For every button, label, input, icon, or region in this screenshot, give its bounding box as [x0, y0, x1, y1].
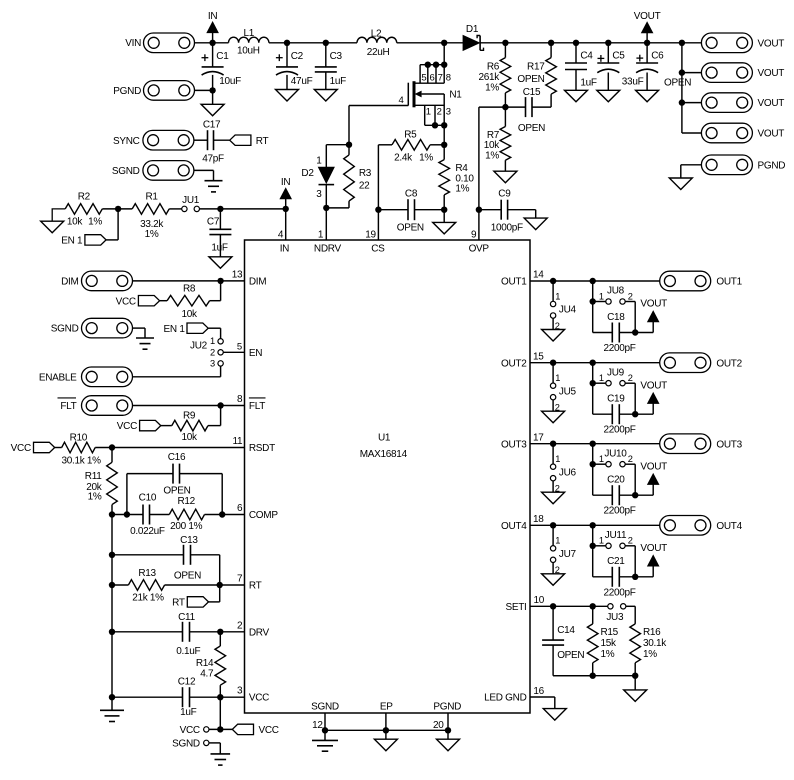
svg-text:C7: C7	[207, 216, 220, 227]
resistor R4 0.10 1%	[439, 160, 475, 210]
svg-text:R16: R16	[643, 627, 661, 638]
connector OUT1	[660, 271, 743, 291]
svg-text:OUT4: OUT4	[501, 521, 527, 532]
ground - C5	[597, 90, 620, 102]
wire - OUT2 net	[530, 362, 660, 364]
junction - C18 right node	[632, 329, 638, 335]
svg-text:VOUT: VOUT	[758, 68, 785, 79]
junction - C19 right node	[632, 411, 638, 417]
wire - OVP branch (node to OVP pin 9)	[479, 107, 506, 240]
resistor R2 10k 1%	[65, 192, 102, 228]
svg-text:8: 8	[237, 394, 243, 405]
ground - SGND pin (bar style)	[312, 730, 338, 751]
resistor R14 4.7	[196, 632, 226, 697]
ground - C6	[636, 90, 659, 102]
wire - R5 left to CS pin 19	[377, 145, 379, 240]
svg-text:1uF: 1uF	[330, 76, 347, 87]
svg-text:15k: 15k	[601, 638, 618, 649]
ground - R2	[41, 209, 65, 233]
junction - C16 left	[124, 511, 130, 517]
connector DIM	[61, 271, 132, 291]
svg-text:EN: EN	[249, 348, 262, 359]
ground - R15/R16	[624, 690, 647, 702]
svg-text:12: 12	[312, 720, 323, 731]
capacitor C6 OPEN	[636, 43, 691, 91]
jumper JU8 (bypass select)	[593, 286, 636, 333]
svg-text:1%: 1%	[145, 229, 159, 240]
wire - bus to ground	[634, 676, 636, 690]
svg-text:R4: R4	[455, 163, 468, 174]
svg-text:C13: C13	[180, 535, 198, 546]
svg-text:C15: C15	[523, 87, 541, 98]
pin labels - top (4 IN, 1 NDRV, 19 CS, 9 OVP)	[278, 229, 490, 254]
wire - DIM net	[132, 280, 244, 282]
capacitor C15 OPEN	[505, 87, 551, 134]
svg-text:ENABLE: ENABLE	[39, 372, 77, 383]
svg-text:1uF: 1uF	[211, 242, 228, 253]
svg-text:DIM: DIM	[249, 276, 266, 287]
svg-text:10k: 10k	[181, 432, 198, 443]
pin 15 OUT2 label	[501, 351, 544, 369]
connector SYNC	[113, 130, 194, 150]
junction - N1 drain at rail	[441, 40, 447, 46]
svg-text:8: 8	[446, 72, 451, 83]
capacitor C21 2200pF	[593, 556, 636, 598]
resistor R16 30.1k 1%	[626, 606, 667, 675]
junction - OUT2/C19	[590, 360, 596, 366]
junction - C2	[284, 40, 290, 46]
junction - VIN node	[209, 40, 215, 46]
junction - OUT1/JU4	[550, 278, 556, 284]
connector OUT2	[660, 353, 743, 373]
ground - PGND pin	[437, 730, 460, 750]
pin 3 VCC label	[237, 686, 269, 704]
ground - R4/C8	[433, 222, 456, 234]
svg-text:2200pF: 2200pF	[603, 343, 635, 354]
svg-text:C16: C16	[168, 452, 186, 463]
diode D2 (pins 1,3)	[301, 155, 334, 208]
capacitor C12 1uF	[112, 677, 245, 719]
svg-text:1: 1	[555, 536, 560, 546]
wire - R15/R16 ground bus	[553, 675, 635, 677]
svg-text:VCC: VCC	[11, 443, 31, 454]
ground - C1	[201, 104, 224, 116]
svg-text:R12: R12	[177, 496, 195, 507]
svg-text:VOUT: VOUT	[640, 380, 667, 391]
pin 17 OUT3 label	[501, 432, 544, 450]
capacitor C19 2200pF	[593, 394, 636, 436]
tag RT (sync input)	[230, 135, 269, 147]
svg-text:6: 6	[237, 503, 243, 514]
svg-text:7: 7	[438, 72, 443, 83]
tag VCC (R10)	[11, 442, 55, 454]
pin 6 COMP label	[237, 503, 278, 521]
ground - left rail (bar style)	[100, 697, 124, 721]
wire - OUT1 net	[530, 280, 660, 282]
svg-text:C12: C12	[178, 677, 196, 688]
pin 7 RT label	[237, 574, 262, 592]
junction - JU8 pin1 node	[590, 298, 596, 304]
svg-text:1: 1	[555, 291, 560, 301]
junction - DRV/R14	[217, 629, 223, 635]
svg-text:22uH: 22uH	[367, 47, 390, 58]
svg-text:OPEN: OPEN	[174, 570, 201, 581]
svg-text:1%: 1%	[455, 183, 469, 194]
connector VOUT (2)	[701, 63, 784, 83]
svg-text:3: 3	[316, 189, 322, 200]
wire - pin 4 IN	[285, 209, 287, 240]
ground - R7	[494, 171, 517, 183]
junction - RT node	[217, 582, 223, 588]
svg-text:OUT2: OUT2	[716, 358, 742, 369]
svg-text:1: 1	[318, 229, 324, 240]
svg-text:VOUT: VOUT	[758, 98, 785, 109]
connector SGND (upper)	[112, 161, 194, 181]
pin labels - bottom (12 SGND, EP, 20 PGND)	[311, 702, 461, 731]
junction - JU11 pin1 node	[590, 543, 596, 549]
resistor R9 10k	[161, 406, 221, 444]
svg-text:JU5: JU5	[559, 386, 577, 397]
junction - OUT3/C20	[590, 441, 596, 447]
resistor R11 20k 1%	[85, 448, 118, 505]
tag VCC (R9)	[117, 420, 161, 432]
svg-text:IN: IN	[281, 177, 290, 188]
svg-text:OPEN: OPEN	[163, 485, 190, 496]
capacitor C14 OPEN	[542, 606, 593, 675]
capacitor C10 0.022uF	[130, 493, 165, 537]
wire - OUT3 to JU10/C20	[592, 444, 594, 496]
capacitor C17 47pF	[194, 120, 230, 165]
jumper JU11 (bypass select)	[593, 530, 636, 577]
svg-text:1%: 1%	[419, 152, 433, 163]
wire - R4 bottom to ground	[443, 210, 445, 223]
svg-text:3: 3	[210, 359, 215, 369]
junction - SETI/C14	[550, 603, 556, 609]
junction - R17 top at rail	[548, 40, 554, 46]
ground - C4	[565, 90, 588, 102]
wire - JU2 pin2 to EN pin 5	[223, 351, 244, 353]
svg-text:LED GND: LED GND	[484, 693, 526, 704]
pin 10 SETI label	[505, 595, 544, 613]
svg-text:1uF: 1uF	[180, 707, 197, 718]
svg-text:1uF: 1uF	[580, 78, 597, 89]
svg-text:PGND: PGND	[433, 702, 461, 713]
svg-text:VOUT: VOUT	[640, 299, 667, 310]
junction - C3	[323, 40, 329, 46]
wire - VIN/IN input rail to L1	[195, 42, 229, 44]
jumper JU7 (to ground)	[550, 525, 576, 575]
wire - LED GND to ground	[530, 697, 555, 709]
svg-text:VOUT: VOUT	[640, 461, 667, 472]
capacitor C20 2200pF	[593, 475, 636, 517]
svg-text:OUT4: OUT4	[716, 521, 742, 532]
svg-text:R9: R9	[183, 411, 196, 422]
svg-text:D2: D2	[301, 168, 314, 179]
svg-text:2200pF: 2200pF	[603, 506, 635, 517]
resistor R1 33.2k 1%	[132, 192, 169, 240]
junction - R16 bottom	[632, 673, 638, 679]
ground - SGND lower (bar style)	[136, 338, 154, 349]
svg-text:RT: RT	[172, 598, 185, 609]
junction - C6	[644, 40, 650, 46]
wire - EP to bus	[385, 713, 387, 730]
wire - SETI net	[530, 605, 608, 607]
capacitor C3 1uF	[315, 43, 346, 90]
connector VOUT (4)	[701, 123, 784, 143]
connector OUT3	[660, 434, 743, 454]
node VOUT (arrow at C19)	[635, 380, 667, 414]
svg-text:C4: C4	[580, 51, 593, 62]
svg-text:5: 5	[421, 72, 426, 83]
svg-text:C18: C18	[607, 312, 625, 323]
ground - SGND (upper, bar style)	[205, 181, 223, 192]
junction - IN pin4 node	[283, 206, 289, 212]
svg-text:R15: R15	[601, 627, 619, 638]
wire - COMP row left	[112, 514, 143, 516]
junction - JU9 pin1 node	[590, 380, 596, 386]
svg-text:1%: 1%	[601, 649, 615, 660]
junction - VOUT stack rail	[679, 40, 685, 46]
junction - rail/C13	[109, 552, 115, 558]
junction - SETI/R15	[590, 603, 596, 609]
svg-text:47pF: 47pF	[202, 154, 224, 165]
svg-text:13: 13	[232, 269, 243, 280]
svg-text:17: 17	[533, 432, 544, 443]
svg-text:14: 14	[533, 270, 544, 281]
resistor R3 22	[344, 145, 372, 208]
ground - JU7	[542, 574, 565, 586]
svg-text:SGND: SGND	[112, 166, 140, 177]
jumper JU9 (bypass select)	[593, 367, 636, 414]
wire - N1 source to R4	[443, 125, 445, 159]
jumper JU5 (to ground)	[550, 363, 576, 413]
pin 13 DIM label	[232, 269, 267, 287]
svg-text:OPEN: OPEN	[518, 123, 545, 134]
svg-text:OVP: OVP	[469, 244, 490, 255]
resistor R6 261k 1%	[479, 43, 511, 107]
junction - CS/C8 node	[375, 207, 381, 213]
svg-text:JU10: JU10	[604, 448, 627, 459]
junction - C5	[605, 40, 611, 46]
svg-text:FLT: FLT	[249, 401, 265, 412]
node IN (up arrow at pin 4)	[280, 177, 291, 209]
junction - VCC/R14	[217, 694, 223, 700]
svg-text:JU1: JU1	[182, 195, 200, 206]
resistor R15 15k 1%	[587, 606, 618, 675]
pin 8 FLT label	[237, 394, 265, 412]
svg-text:OPEN: OPEN	[517, 74, 544, 85]
svg-text:2: 2	[210, 347, 215, 357]
svg-text:C6: C6	[651, 51, 664, 62]
svg-text:R5: R5	[404, 129, 417, 140]
svg-text:JU2: JU2	[190, 341, 208, 352]
wire - OUT2 to JU9/C19	[592, 363, 594, 415]
svg-text:VOUT: VOUT	[758, 38, 785, 49]
capacitor C16 OPEN (feedback loop)	[127, 452, 222, 515]
capacitor C13 OPEN	[112, 535, 220, 585]
connector FLT (active low)	[58, 396, 133, 416]
svg-text:C3: C3	[330, 51, 343, 62]
wire - NDRV net to N1 gate	[349, 106, 408, 145]
svg-text:1: 1	[599, 536, 604, 546]
svg-text:R13: R13	[138, 568, 156, 579]
svg-text:C11: C11	[178, 612, 195, 623]
connector OUT4	[660, 516, 743, 536]
node VOUT (up arrow at output rail)	[634, 11, 661, 43]
capacitor C5 33uF	[597, 43, 643, 91]
svg-text:VOUT: VOUT	[758, 129, 785, 140]
svg-text:R1: R1	[146, 192, 159, 203]
svg-text:JU7: JU7	[559, 549, 577, 560]
capacitor C1 10uF	[202, 43, 242, 105]
svg-text:7: 7	[237, 574, 243, 585]
junction - OUT4/JU7	[550, 522, 556, 528]
svg-text:47uF: 47uF	[291, 76, 313, 87]
node VOUT (arrow at C18)	[635, 299, 667, 333]
pin 18 OUT4 label	[501, 514, 544, 532]
wire - VCC test point to tag	[209, 728, 232, 730]
svg-text:OUT1: OUT1	[716, 277, 742, 288]
svg-text:SYNC: SYNC	[113, 136, 140, 147]
junction - FLT/R9	[217, 402, 223, 408]
svg-text:2: 2	[628, 373, 633, 383]
svg-text:OUT3: OUT3	[716, 439, 742, 450]
junction - C1/PGND	[209, 87, 215, 93]
junction - rail/COMP	[109, 511, 115, 517]
svg-text:C21: C21	[607, 556, 625, 567]
svg-text:OUT1: OUT1	[501, 277, 527, 288]
svg-text:1: 1	[599, 291, 604, 301]
pin 5 EN label	[237, 341, 262, 359]
junction - R15 bottom	[590, 673, 596, 679]
svg-text:10uF: 10uF	[219, 76, 241, 87]
svg-text:JU6: JU6	[559, 467, 577, 478]
tag RT (to RT pin)	[172, 585, 220, 609]
junction - R10/R11	[109, 444, 115, 450]
svg-text:CS: CS	[371, 244, 385, 255]
svg-text:D1: D1	[466, 24, 479, 35]
svg-text:IN: IN	[208, 11, 217, 22]
svg-text:10k: 10k	[67, 216, 84, 227]
ground - EP	[374, 730, 397, 750]
svg-text:2: 2	[437, 107, 442, 118]
svg-text:R6: R6	[487, 61, 500, 72]
svg-text:33uF: 33uF	[622, 76, 644, 87]
ground - output PGND	[669, 178, 692, 190]
svg-text:18: 18	[533, 514, 544, 525]
svg-text:DIM: DIM	[61, 277, 78, 288]
junction - C20 right node	[632, 492, 638, 498]
node SGND (test point)	[172, 739, 209, 750]
jumper JU1	[182, 195, 200, 212]
ground - SGND test point (bar style)	[211, 754, 231, 765]
svg-text:4.7: 4.7	[200, 669, 214, 680]
ground - JU4	[542, 330, 565, 342]
wire - R1 to JU1	[169, 208, 182, 210]
svg-text:RSDT: RSDT	[249, 443, 275, 454]
svg-text:C14: C14	[557, 625, 575, 636]
svg-text:EN 1: EN 1	[164, 324, 186, 335]
junction - C7 node	[217, 206, 223, 212]
svg-text:VCC: VCC	[259, 725, 279, 736]
svg-text:C8: C8	[405, 188, 418, 199]
resistor R7 10k 1%	[484, 107, 511, 171]
capacitor C9 1000pF	[479, 188, 536, 233]
tag EN 1 (at R1/R2 node)	[61, 209, 118, 247]
svg-text:1%: 1%	[88, 491, 102, 502]
wire - R3 bottom to NDRV pin 1	[326, 208, 349, 240]
junction - NDRV node	[323, 205, 329, 211]
svg-text:MAX16814: MAX16814	[360, 449, 408, 460]
svg-text:VCC: VCC	[117, 421, 137, 432]
junction - EP bus	[383, 727, 389, 733]
junction - C4	[573, 40, 579, 46]
junction - OUT1/C18	[590, 278, 596, 284]
svg-text:0.1uF: 0.1uF	[176, 646, 200, 657]
svg-text:4: 4	[399, 95, 404, 106]
svg-text:1: 1	[426, 107, 431, 118]
svg-text:SGND: SGND	[51, 324, 79, 335]
svg-text:1: 1	[316, 155, 322, 166]
svg-text:SETI: SETI	[505, 602, 526, 613]
svg-text:EP: EP	[380, 702, 393, 713]
wire - PGND pin 20 to bus	[447, 713, 449, 730]
junction - rail/C11	[109, 629, 115, 635]
svg-text:C5: C5	[612, 51, 625, 62]
junction - VOUT row3	[679, 99, 685, 105]
jumper JU2 (pins 1,2,3)	[190, 336, 223, 369]
wire - SGND connector to ground	[194, 170, 214, 180]
junction - R6/C15/R7/OVP node	[502, 104, 508, 110]
ground - C7	[209, 257, 232, 269]
svg-text:21k 1%: 21k 1%	[132, 593, 164, 604]
svg-text:R2: R2	[78, 192, 91, 203]
svg-text:30.1k 1%: 30.1k 1%	[61, 455, 101, 466]
wire - SGND pin 12 to ground bus	[324, 713, 326, 730]
wire - R2 to R1	[102, 208, 132, 210]
connector SGND (lower)	[51, 318, 133, 338]
junction - PGND bus	[445, 727, 451, 733]
svg-text:VCC: VCC	[249, 693, 269, 704]
connector VIN	[125, 33, 194, 53]
wire - VCC pin to VCC tag node	[219, 697, 221, 729]
junction - OVP/C9	[476, 207, 482, 213]
capacitor C18 2200pF	[593, 312, 636, 354]
node VOUT (arrow at C21)	[635, 543, 667, 577]
tag EN 1 (to JU2)	[164, 323, 221, 339]
svg-text:C17: C17	[203, 120, 221, 131]
svg-text:1%: 1%	[643, 649, 657, 660]
svg-text:2.4k: 2.4k	[394, 152, 413, 163]
svg-text:U1: U1	[378, 433, 391, 444]
svg-text:1%: 1%	[485, 83, 499, 94]
jumper JU4 (to ground)	[550, 281, 576, 331]
svg-text:11: 11	[233, 436, 244, 447]
svg-text:OPEN: OPEN	[557, 650, 584, 661]
connector VOUT (1)	[701, 33, 784, 53]
op-amp U1 MAX16814 (IC body)	[245, 240, 531, 713]
svg-text:30.1k: 30.1k	[643, 638, 667, 649]
junction - JU10 pin1 node	[590, 461, 596, 467]
node VCC (test point)	[180, 725, 209, 736]
pin 14 OUT1 label	[501, 270, 544, 288]
wire - D1 cathode to VOUT rail	[480, 42, 701, 44]
junction - R4 bottom	[441, 207, 447, 213]
wire - JU2 pin3 to ENABLE	[132, 366, 220, 377]
svg-text:OPEN: OPEN	[664, 77, 691, 88]
svg-text:1: 1	[555, 454, 560, 464]
transistor N1 (n-channel MOSFET, pins 5-8 drain, 1-3 source, 4 gate)	[399, 61, 463, 128]
